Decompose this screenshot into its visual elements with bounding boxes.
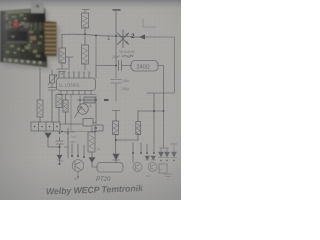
IC chip	[7, 31, 27, 42]
wire	[95, 96, 97, 125]
node	[95, 99, 97, 101]
wire	[115, 135, 117, 154]
solder strip bottom	[0, 58, 47, 67]
crystal PT20 box	[97, 163, 123, 173]
diode D2	[45, 133, 51, 138]
wire right bus	[163, 66, 165, 149]
bottom right cluster verticals	[133, 143, 147, 153]
resistor R4b	[137, 111, 139, 122]
diode D9	[89, 158, 95, 163]
leg strip	[30, 22, 45, 31]
transistor Q1	[118, 30, 129, 48]
wire	[115, 36, 117, 66]
edge connector	[44, 21, 57, 56]
trimmer	[51, 70, 53, 75]
wire faint top corner	[143, 19, 156, 27]
node supply bar	[113, 9, 121, 11]
node	[59, 146, 61, 148]
diode D1	[113, 154, 119, 160]
led red	[13, 22, 19, 28]
transistor Q2	[78, 104, 89, 115]
wire	[92, 163, 97, 168]
diode D8	[57, 155, 62, 160]
diode D6	[159, 152, 164, 158]
resistor R5	[84, 36, 86, 45]
wire top rail	[62, 34, 131, 36]
wire y100	[77, 99, 96, 101]
box hf	[159, 164, 167, 173]
transistor Q4	[133, 163, 142, 172]
node	[94, 131, 96, 133]
ground	[57, 69, 67, 74]
box dark	[84, 97, 95, 103]
vignette	[0, 0, 181, 200]
wire from photo	[39, 68, 41, 100]
diode D5	[172, 152, 177, 158]
node	[173, 160, 175, 162]
wire bus	[60, 94, 96, 96]
transistor legs	[33, 23, 43, 31]
wire	[67, 128, 69, 158]
node dash	[104, 99, 109, 101]
ground bottom right	[164, 174, 172, 179]
node	[166, 160, 168, 162]
resistor R8	[88, 132, 95, 152]
transistor TO220 tab	[31, 2, 44, 15]
resistor R7	[56, 95, 62, 108]
wire	[116, 139, 139, 141]
wire	[95, 66, 97, 79]
photo board	[0, 8, 47, 67]
board left dark edge	[0, 11, 4, 63]
wire chain	[60, 123, 83, 125]
node	[95, 127, 97, 129]
capacitor C7	[171, 144, 177, 152]
diode D3	[145, 156, 150, 160]
node J2	[153, 110, 155, 112]
node	[160, 160, 162, 162]
photo shadow	[2, 10, 60, 70]
wire with arrow	[134, 36, 175, 38]
resistor R1	[61, 35, 63, 49]
resistor R3 240 ohm	[131, 61, 158, 72]
capacitor C6	[56, 137, 63, 154]
wire right side	[138, 37, 175, 153]
paper background	[0, 0, 181, 200]
wire y131	[58, 131, 97, 133]
node	[59, 132, 61, 134]
capacitor C3	[113, 111, 120, 122]
bus split	[160, 148, 169, 152]
node	[91, 159, 93, 161]
transistor Q5	[148, 163, 157, 172]
node J1b	[84, 33, 86, 35]
node	[95, 35, 97, 37]
capacitor C2	[111, 66, 121, 102]
pins top	[59, 73, 89, 79]
transistor body	[30, 13, 46, 23]
diode D4	[151, 156, 156, 160]
resistor R2	[82, 10, 89, 14]
node J4	[115, 139, 117, 141]
wire vertical x96	[95, 36, 97, 66]
diode D7	[165, 152, 170, 158]
PCB photo	[0, 2, 57, 67]
board mottle	[4, 13, 27, 22]
connector K1	[31, 122, 60, 131]
box F1	[83, 119, 93, 127]
small parts	[30, 36, 36, 40]
bright specks	[5, 14, 41, 57]
board top light edge	[6, 10, 30, 14]
small box	[95, 125, 103, 131]
capacitor C4	[65, 57, 73, 70]
node	[79, 99, 81, 101]
wire	[115, 12, 117, 37]
nodes row	[72, 144, 84, 157]
node J1c	[115, 65, 117, 67]
transistor Q3	[72, 160, 84, 172]
resistor R9	[65, 95, 67, 101]
node J1	[115, 35, 117, 37]
capacitor C1	[119, 61, 122, 71]
node	[61, 131, 63, 133]
node	[67, 132, 69, 134]
capacitor C5	[49, 88, 57, 94]
resistor R4	[113, 121, 119, 135]
wire to cap	[96, 65, 117, 67]
resistor R6	[37, 100, 43, 117]
wire	[70, 95, 72, 132]
IC U1	[57, 78, 96, 91]
node J3	[163, 110, 165, 112]
pins bottom	[61, 91, 91, 95]
